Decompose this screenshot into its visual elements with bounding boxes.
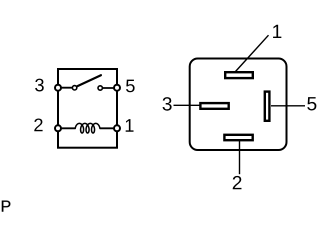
label 3 (schematic): [35, 79, 44, 92]
wire pin3 to switch contact: [58, 87, 75, 89]
pin 1 terminal circle: [114, 125, 120, 131]
wire switch contact to pin5: [100, 87, 117, 89]
switch contact circle left: [72, 86, 76, 90]
terminal slot pin 1 (top): [225, 72, 253, 78]
relay connector body outline: [190, 59, 287, 151]
lead line to connector pin 2 label: [239, 141, 241, 174]
pin 5 terminal circle: [114, 85, 120, 91]
lead line to connector pin 5 label: [271, 105, 305, 107]
lead line to connector pin 1 label: [236, 35, 269, 71]
terminal slot pin 3 (left): [200, 103, 228, 109]
relay coil: [75, 123, 100, 133]
pin 2 terminal circle: [55, 125, 61, 131]
terminal slot pin 5 (right): [265, 92, 270, 121]
label 5 (connector): [307, 97, 316, 110]
wire pin2 to coil: [58, 127, 76, 129]
page marker P: [2, 201, 11, 212]
pin 3 terminal circle: [55, 85, 61, 91]
switch contact circle right: [98, 86, 102, 90]
label 1 (connector): [273, 25, 281, 38]
switch arm: [77, 75, 101, 86]
lead line to connector pin 3 label: [174, 104, 201, 106]
label 2 (connector): [233, 176, 242, 189]
wire coil to pin1: [100, 127, 117, 129]
label 2 (schematic): [34, 118, 42, 131]
label 5 (schematic): [126, 80, 135, 93]
label 3 (connector): [163, 97, 172, 111]
label 1 (schematic): [126, 119, 134, 132]
terminal slot pin 2 (bottom): [224, 135, 252, 140]
relay internal-circuit box: [58, 69, 117, 148]
